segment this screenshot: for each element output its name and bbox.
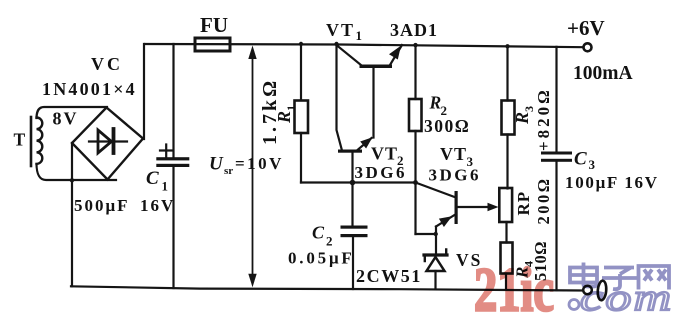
wire top rail — [145, 44, 582, 47]
svg-text:T: T — [14, 130, 26, 150]
svg-text:300Ω: 300Ω — [424, 116, 470, 136]
zener diode VS — [424, 250, 447, 290]
svg-text:=10V: =10V — [235, 154, 284, 173]
svg-text:0.05μF: 0.05μF — [288, 249, 355, 268]
svg-text:sr: sr — [224, 165, 233, 177]
wire transformer top lead — [37, 107, 108, 118]
transistor VT2 — [337, 44, 373, 183]
svg-text:FU: FU — [200, 13, 228, 37]
wire bottom rail — [71, 286, 583, 290]
wire R1 bottom to VT3 node — [301, 181, 416, 183]
label R1 rotated — [274, 105, 298, 124]
svg-text:RP: RP — [514, 191, 533, 216]
svg-text:1N4001×4: 1N4001×4 — [42, 79, 137, 99]
capacitor C1 — [156, 44, 189, 288]
svg-text:+820Ω: +820Ω — [534, 87, 553, 151]
svg-text:+6V: +6V — [567, 16, 605, 40]
svg-text:U: U — [209, 154, 224, 175]
svg-text:100mA: 100mA — [573, 63, 633, 84]
svg-text:com: com — [580, 276, 673, 313]
node VT3 emitter to R2 junction — [434, 232, 438, 236]
svg-text:1: 1 — [284, 105, 298, 111]
svg-text:VT: VT — [326, 20, 355, 40]
node bridge lead crossing — [70, 178, 74, 182]
bridge rectifier VC — [72, 108, 143, 180]
label 510Ohm rotated — [531, 241, 550, 281]
svg-text:3: 3 — [589, 157, 596, 172]
svg-text:8V: 8V — [53, 109, 79, 129]
wire R2 bottom to VT3 emitter node — [416, 233, 436, 235]
wire bridge left corner to bottom rail — [71, 143, 73, 286]
svg-text:1: 1 — [356, 28, 363, 43]
resistor R3 — [502, 46, 515, 188]
node Usr measurement arrow — [248, 46, 256, 288]
node R3 rail junction — [505, 44, 509, 48]
fuse FU — [195, 38, 230, 51]
svg-text:1: 1 — [162, 179, 169, 194]
svg-text:C: C — [312, 223, 325, 243]
svg-text:VT: VT — [371, 144, 398, 164]
capacitor C3 — [541, 47, 572, 290]
node VT2 collector rail junction — [334, 42, 338, 46]
terminal +6V — [584, 43, 592, 51]
svg-text:100μF 16V: 100μF 16V — [565, 173, 659, 192]
svg-text:3DG6: 3DG6 — [355, 163, 408, 182]
svg-text:2CW51: 2CW51 — [356, 266, 422, 286]
label +820Ohm rotated — [534, 87, 553, 151]
transformer T — [31, 117, 42, 166]
potentiometer RP — [458, 188, 512, 243]
watermark — [474, 255, 673, 313]
label 200Ohm rotated — [534, 177, 553, 225]
resistor R4 — [501, 243, 513, 290]
resistor R1 — [295, 44, 309, 183]
wire bridge right corner to top rail — [143, 44, 145, 139]
svg-text:21ic: 21ic — [474, 255, 554, 313]
capacitor C2 — [341, 183, 368, 290]
svg-text:R: R — [274, 111, 294, 124]
node R1 top rail junction — [299, 42, 303, 46]
label RP rotated — [514, 191, 533, 216]
terminal 0 — [583, 286, 592, 295]
svg-text:R: R — [512, 112, 532, 125]
wire transformer bottom lead — [37, 164, 117, 180]
svg-text:200Ω: 200Ω — [534, 177, 553, 225]
svg-text:R: R — [429, 93, 442, 113]
transistor VT1 — [337, 45, 402, 138]
node VT3 collector junction — [413, 180, 418, 185]
label R3 rotated — [512, 106, 536, 125]
label 0 — [597, 280, 607, 300]
node VT2 base junction — [350, 180, 356, 186]
transistor VT3 — [416, 183, 458, 254]
label R4 rotated — [513, 261, 536, 279]
svg-text:2: 2 — [326, 234, 333, 249]
svg-text:VT: VT — [440, 144, 467, 164]
resistor R2 — [409, 45, 422, 234]
svg-text:500μF 16V: 500μF 16V — [74, 196, 175, 215]
svg-text:C: C — [574, 149, 587, 170]
label 1.7kOhm rotated — [259, 78, 281, 145]
svg-text:3AD1: 3AD1 — [390, 20, 438, 40]
svg-text:3DG6: 3DG6 — [429, 166, 482, 185]
node R2 rail junction — [413, 43, 417, 47]
svg-text:C: C — [146, 168, 159, 189]
svg-text:VC: VC — [91, 54, 123, 74]
